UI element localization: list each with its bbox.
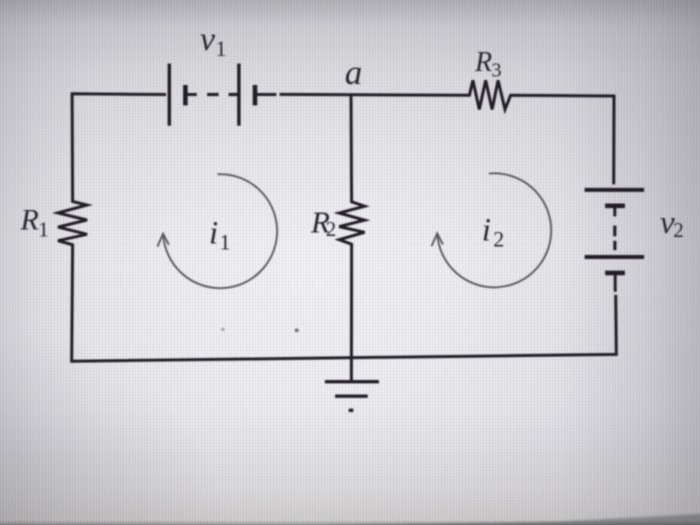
- battery V2 plate short top: [605, 204, 625, 209]
- battery V1 plate short left: [183, 85, 188, 105]
- battery V1 stub right: [255, 93, 276, 96]
- mesh current arrow i1 head: [157, 234, 168, 247]
- battery V1 stub left: [185, 93, 196, 96]
- ground bar 2: [335, 395, 368, 398]
- svg-text:3: 3: [492, 60, 502, 82]
- svg-text:ν: ν: [200, 21, 216, 58]
- dust speck faint: [221, 328, 225, 332]
- svg-text:1: 1: [220, 230, 231, 255]
- svg-text:i: i: [482, 212, 491, 248]
- battery V1 plate short right: [253, 85, 258, 105]
- svg-text:2: 2: [326, 217, 337, 241]
- mesh current arrow i1 arc: [163, 174, 277, 288]
- battery V2 stub top: [613, 206, 616, 217]
- svg-text:1: 1: [216, 36, 227, 61]
- battery V2 dash 2: [613, 241, 616, 250]
- svg-text:R: R: [474, 47, 492, 78]
- battery V1 plate long left: [168, 64, 171, 126]
- battery V2 stub bottom: [614, 273, 617, 292]
- dust speck: [295, 328, 299, 332]
- battery V2 plate long top: [585, 188, 645, 192]
- svg-text:1: 1: [38, 218, 49, 242]
- ground bar 3: [349, 409, 354, 412]
- svg-text:i: i: [209, 216, 218, 252]
- battery V2 plate long bottom: [585, 255, 645, 259]
- mesh current arrow i2 head: [432, 233, 443, 246]
- svg-text:a: a: [345, 53, 363, 92]
- mesh current arrow i2 arc: [437, 173, 551, 287]
- ground bar 1: [325, 380, 379, 383]
- svg-text:R: R: [20, 204, 39, 237]
- wire outer loop with resistor R1 zigzag (top-left, left, bottom, lower-right): [58, 94, 616, 361]
- battery V1 dash 2: [229, 93, 238, 96]
- photo bottom edge shadow: [330, 514, 700, 525]
- battery V2 plate short bottom: [605, 271, 625, 276]
- battery V1 plate long right: [237, 64, 240, 126]
- wire middle branch with resistor R2 zigzag and ground stub: [339, 94, 364, 381]
- battery V1 dash 1: [207, 93, 219, 96]
- svg-text:2: 2: [673, 218, 684, 242]
- svg-text:2: 2: [493, 226, 504, 251]
- battery V2 dash 1: [613, 226, 616, 237]
- wire top-middle and top-right with resistor R3 zigzag: [280, 80, 614, 184]
